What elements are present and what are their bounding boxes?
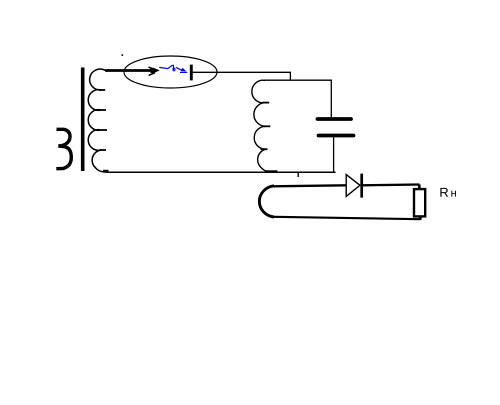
capacitor C1 top lead	[330, 80, 332, 117]
diode D1 triangle	[346, 175, 360, 197]
secondary coil L1 (left coil)	[88, 69, 106, 172]
blue spark diagonal dash	[176, 67, 182, 70]
diode D1 cathode bar	[360, 174, 363, 198]
blue spark arrow	[159, 65, 173, 70]
blue spark arrowhead	[181, 68, 187, 72]
detector loop bottom wire	[274, 217, 421, 219]
coil L1 cusp tick y=90	[99, 89, 105, 91]
stray tick on bottom wire	[297, 173, 299, 178]
coil L2 cusp tick y=126	[264, 125, 271, 127]
wire: diode to load resistor	[363, 183, 420, 186]
capacitor C1 top plate	[318, 117, 352, 121]
coil L1 bottom junction tick	[103, 170, 109, 172]
coil L2 cusp tick y=103	[262, 102, 269, 104]
wire: corner step down	[289, 72, 291, 80]
detector loop top wire	[273, 185, 346, 186]
wire: bottom jog up to resistor	[419, 215, 422, 220]
coil L1 cusp tick y=130	[101, 129, 107, 131]
capacitor C1 bottom plate	[319, 134, 354, 138]
arrowhead upper barb	[148, 67, 154, 69]
spark gap electrode bar	[190, 65, 193, 81]
arrowhead lower barb	[149, 73, 155, 76]
blue underline stroke of spark arrowhead	[180, 71, 187, 73]
label Rн : letter н (Cyrillic en)	[451, 191, 456, 197]
detector loop U-turn (left rounded end)	[259, 186, 274, 217]
thick current arrow on top wire	[105, 69, 154, 72]
stray dot near ellipse	[122, 54, 124, 56]
wire: to tank circuit top	[264, 79, 332, 81]
load resistor Rn (rectangle)	[414, 189, 425, 216]
label Rн : letter R	[440, 188, 448, 197]
wire: bottom conductor of tank circuit	[106, 171, 336, 173]
spark gap envelope (ellipse)	[124, 56, 217, 88]
coil L1 cusp tick y=110	[100, 109, 107, 111]
coil L2 bottom junction tick	[266, 170, 278, 172]
primary winding W1 ("3" shaped coil)	[56, 129, 71, 168]
wire: corner down to resistor top	[418, 185, 421, 190]
transformer core	[81, 68, 85, 172]
wire: electrode to right	[193, 71, 292, 73]
tank coil L2 (right coil)	[252, 80, 271, 172]
coil L1 cusp tick y=150	[100, 149, 107, 151]
capacitor C1 bottom lead	[333, 137, 335, 172]
blue spark small loop	[173, 68, 175, 71]
coil L2 cusp tick y=150	[261, 148, 268, 150]
